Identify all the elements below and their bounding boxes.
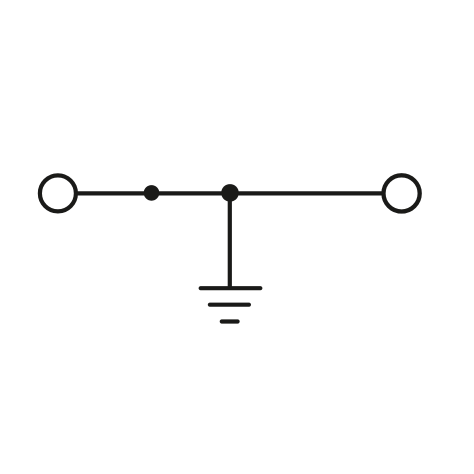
junction dot center (221, 184, 239, 202)
wire horizontal bus (76, 191, 383, 195)
ground bar middle (210, 303, 249, 307)
junction dot left (144, 185, 160, 201)
terminal circle left (40, 175, 76, 211)
wire vertical to ground (228, 193, 232, 288)
ground bar top (201, 286, 261, 290)
terminal circle right (384, 175, 420, 211)
ground bar bottom (222, 319, 238, 323)
